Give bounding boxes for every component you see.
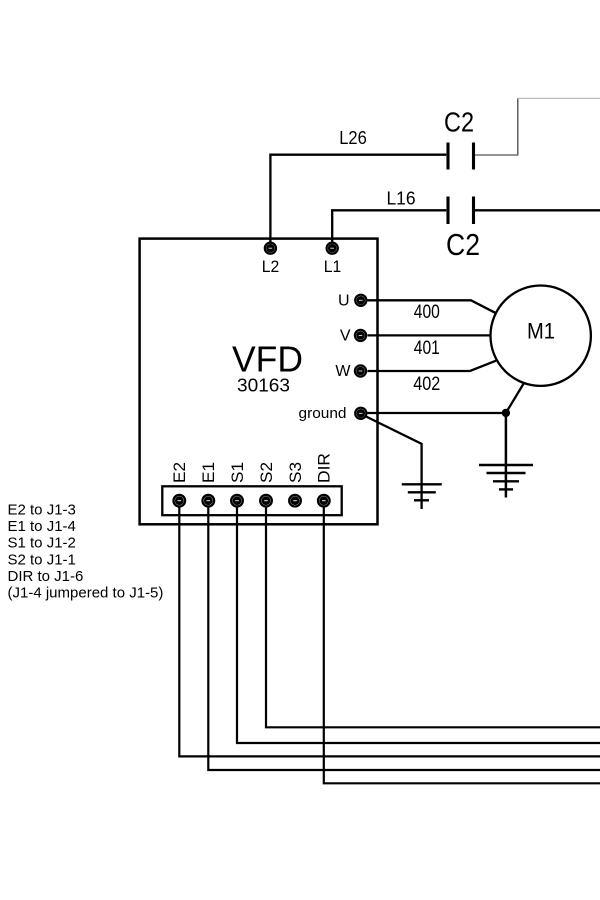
svg-text:S2 to J1-1: S2 to J1-1 (8, 551, 76, 568)
svg-text:L16: L16 (387, 189, 416, 209)
wire S2 down and right (266, 507, 600, 728)
terminal DIR (318, 495, 330, 507)
svg-text:L1: L1 (324, 257, 342, 276)
svg-text:VFD: VFD (232, 339, 303, 380)
svg-text:C2: C2 (446, 227, 480, 262)
svg-text:S1 to J1-2: S1 to J1-2 (8, 535, 76, 552)
svg-text:E2: E2 (171, 462, 189, 483)
wire thin gray to top right edge (517, 97, 600, 99)
motor M1 (491, 286, 591, 386)
terminal E2 (174, 495, 186, 507)
svg-text:ground: ground (299, 405, 347, 422)
wire VFD ground to earth (diagonal + vertical) (366, 416, 422, 509)
terminal ground (355, 408, 366, 419)
contactor contact C2 top (left bar) (446, 143, 449, 170)
wire E1 down and right (208, 507, 600, 770)
svg-text:E2 to J1-3: E2 to J1-3 (8, 501, 76, 518)
svg-text:S2: S2 (258, 462, 276, 483)
terminal S3 (289, 495, 301, 507)
svg-text:E1: E1 (200, 462, 218, 483)
wire DIR down and right (324, 507, 600, 784)
terminal L2 (265, 243, 276, 254)
svg-text:S3: S3 (287, 462, 305, 483)
svg-text:W: W (335, 363, 351, 380)
svg-text:(J1-4 jumpered to J1-5): (J1-4 jumpered to J1-5) (8, 585, 164, 602)
contactor contact C2 bottom (right bar) (472, 197, 475, 225)
svg-text:DIR: DIR (316, 453, 334, 483)
wire ground bus to junction (368, 412, 506, 414)
svg-text:C2: C2 (444, 107, 474, 138)
terminal S2 (260, 495, 272, 507)
contactor contact C2 bottom (left bar) (446, 197, 449, 225)
svg-text:402: 402 (413, 374, 440, 395)
connection notes text block (8, 501, 164, 601)
wire L26 net (L2 up and right to contact) (270, 155, 446, 243)
svg-text:E1 to J1-4: E1 to J1-4 (8, 518, 76, 535)
earth ground (motor side, 4 bars) (479, 465, 533, 489)
terminal L1 (327, 243, 338, 254)
wire U to motor (net 400) (368, 300, 497, 313)
wire W to motor (net 402) (368, 361, 497, 371)
wire motor to junction (506, 384, 524, 413)
junction node (502, 409, 510, 417)
wire junction down to earth (505, 413, 508, 498)
svg-text:M1: M1 (527, 318, 555, 343)
wire S1 down and right (237, 507, 600, 743)
svg-text:L2: L2 (262, 257, 280, 276)
svg-text:V: V (340, 327, 351, 344)
svg-text:S1: S1 (229, 462, 247, 483)
wire thin gray vertical (517, 98, 519, 155)
wire thin gray from top contact right (475, 154, 518, 156)
wire from bottom contact to right edge (475, 209, 600, 211)
wire E2 down and right (179, 507, 600, 757)
terminal W (355, 365, 366, 376)
VFD enclosure box (140, 239, 378, 525)
terminal E1 (203, 495, 215, 507)
earth ground (VFD side, 3 bars) (402, 484, 442, 500)
svg-text:DIR to J1-6: DIR to J1-6 (8, 568, 84, 585)
svg-text:400: 400 (414, 302, 440, 323)
terminal S1 (231, 495, 243, 507)
svg-text:U: U (338, 292, 350, 309)
wire L16 net (L1 up and right to contact) (332, 210, 446, 243)
terminal strip box (162, 486, 341, 515)
terminal V (355, 330, 366, 341)
svg-text:401: 401 (414, 338, 440, 359)
svg-text:30163: 30163 (237, 376, 290, 396)
svg-text:L26: L26 (339, 128, 367, 148)
wire V to motor (net 401) (368, 334, 492, 336)
contactor contact C2 top (right bar) (472, 143, 475, 170)
terminal U (355, 295, 366, 306)
